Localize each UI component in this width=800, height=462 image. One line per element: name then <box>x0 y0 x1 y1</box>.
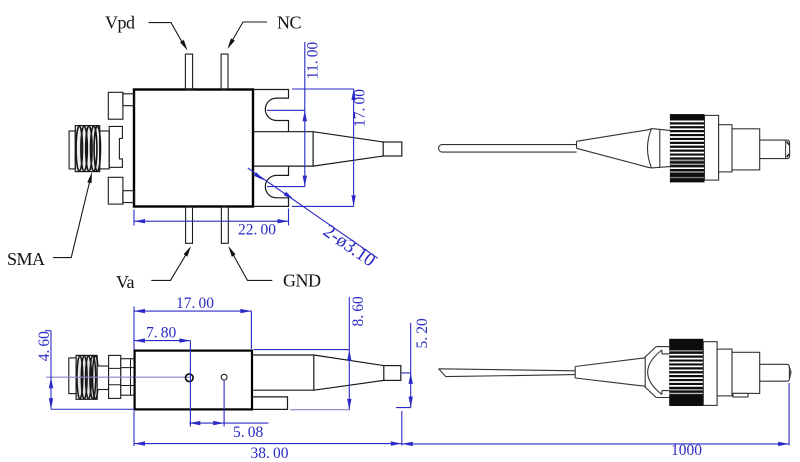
coupling ring (upper) <box>705 115 719 180</box>
boot collar steps (lower) <box>656 347 669 398</box>
dimension 7.80 extension through body <box>189 341 191 427</box>
svg-text:5. 20: 5. 20 <box>414 318 431 348</box>
SMA thread coils (side view) <box>77 356 83 399</box>
svg-text:GND: GND <box>283 271 321 291</box>
dimension 17.00 (side) extension lines <box>134 307 251 350</box>
dimension 4.60 line <box>45 331 51 410</box>
SMA flange bottom boss (top view) <box>123 191 135 203</box>
SMA end cap (side view) <box>69 358 76 394</box>
dimension 17.00 (top view) line <box>353 89 355 206</box>
pin NC top (top view) <box>221 54 228 89</box>
dimension 5.08 extension line <box>223 381 225 427</box>
collar (upper) <box>652 129 670 168</box>
svg-text:SMA: SMA <box>7 249 45 269</box>
GROUP: upper fiber pigtail with FC connector <box>439 114 790 182</box>
ferrule tip mark (lower) <box>789 367 791 379</box>
ferrule (upper) <box>760 140 790 159</box>
dimension 1000 line <box>402 443 789 445</box>
dimension 11.00 line <box>304 42 306 187</box>
svg-text:1000: 1000 <box>671 442 702 459</box>
pin Va bottom (top view) <box>186 207 193 244</box>
back ring (lower) <box>717 349 732 396</box>
dimension 17.00 (side) line <box>134 310 251 312</box>
SMA flange top boss (top view) <box>123 94 135 106</box>
svg-text:5. 08: 5. 08 <box>233 424 263 441</box>
svg-text:17. 00: 17. 00 <box>176 295 214 312</box>
knurled nut (lower) <box>669 339 703 406</box>
GROUP: top view of module <box>7 13 402 293</box>
leader for NC <box>231 22 267 43</box>
leader for GND <box>232 253 272 281</box>
pin hole small circle (side view) <box>221 374 227 380</box>
pin Vpd top (top view) <box>185 54 192 89</box>
SMA flange bottom tab (top view) <box>108 177 123 204</box>
SMA middle block with notch (top view) <box>109 126 122 167</box>
fiber cable (upper) <box>439 145 577 153</box>
knurled nut (upper) <box>670 114 705 182</box>
connector body (lower) <box>732 352 760 393</box>
boot cone (upper) <box>577 130 649 168</box>
snout cone (side view) <box>314 355 384 390</box>
dimension 17.00 (top view) reference lines <box>292 89 354 206</box>
module body (side view) <box>135 351 252 410</box>
dimension 8.60 line <box>348 297 350 410</box>
svg-text:2-ø3.10: 2-ø3.10 <box>319 221 379 272</box>
dimension 4.60 bottom reference <box>51 408 135 410</box>
boot collar flare (lower) <box>644 347 656 398</box>
svg-text:Vpd: Vpd <box>105 13 135 33</box>
svg-text:11. 00: 11. 00 <box>305 42 322 80</box>
pin GND bottom (top view) <box>221 207 228 244</box>
boot cone (lower) <box>575 358 644 386</box>
slot 1 centre line (blue) <box>267 109 305 111</box>
svg-text:Va: Va <box>116 272 135 292</box>
GROUP: side view of module <box>36 295 431 462</box>
SMA nut flat (top view) <box>100 131 110 169</box>
axis centre line (side view) <box>46 376 136 378</box>
dimension 8.60 reference lines <box>254 349 350 351</box>
coupling ring (lower) <box>703 342 717 406</box>
svg-text:NC: NC <box>277 13 301 33</box>
snout neck (top view) <box>253 132 313 166</box>
dimension 1000 extension line left <box>401 411 403 446</box>
SMA neck (side view) <box>97 366 108 390</box>
dimension 22.00 line <box>134 220 289 222</box>
connector body (upper) <box>732 129 760 170</box>
dimension 5.08 line <box>189 422 268 424</box>
dimension 1000 extension line right <box>788 383 790 446</box>
SMA threaded section (side view) <box>77 356 97 398</box>
snout tip (top view) <box>383 142 402 156</box>
leader for Vpd <box>149 23 185 46</box>
boot dome (lower) <box>648 350 662 395</box>
snout tip (side view) <box>384 366 401 381</box>
SMA threaded section (top view) <box>76 127 99 171</box>
dimension 38.00 extension line left <box>133 411 135 446</box>
module body (top view) <box>134 90 253 207</box>
slot 2 centre line (blue) <box>267 186 305 188</box>
snout cone (top view) <box>313 132 383 166</box>
flange plate lower outline with slot (top view) <box>253 166 288 206</box>
GROUP: lower fiber pigtail with FC connector <box>402 339 791 459</box>
ferrule tip line (upper) <box>785 141 787 159</box>
pin hole circle with cross (side view) <box>186 374 194 382</box>
snout neck (side view) <box>252 355 314 390</box>
leader for Va <box>151 254 186 281</box>
dimension 38.00 line <box>134 443 402 445</box>
svg-text:8. 60: 8. 60 <box>350 296 367 326</box>
svg-text:4. 60: 4. 60 <box>36 331 53 361</box>
svg-text:38. 00: 38. 00 <box>251 445 289 462</box>
svg-text:7. 80: 7. 80 <box>146 325 176 342</box>
boot end cap (upper) <box>648 129 652 168</box>
leader line 2-diam3.10 <box>248 168 378 258</box>
ferrule (lower) <box>760 364 790 381</box>
leader for SMA <box>53 181 90 258</box>
SMA end cap (top view) <box>69 131 75 169</box>
SMA hex nut (side view) <box>109 355 121 398</box>
svg-text:17. 00: 17. 00 <box>352 89 369 127</box>
dimension 7.80 line <box>134 340 190 342</box>
SMA flange top tab (top view) <box>108 92 123 119</box>
key tab (lower) <box>733 393 748 397</box>
dimension 5.20 line <box>396 323 411 408</box>
back ring (upper) <box>719 125 732 172</box>
svg-text:22. 00: 22. 00 <box>238 222 276 239</box>
axis centre line inside body (side view) <box>135 376 191 378</box>
SMA thread coils (top view) <box>76 126 82 171</box>
dimension 22.00 extension lines <box>134 209 289 226</box>
flange plate upper outline with slot (top view) <box>253 90 288 132</box>
SMA washer (side view) <box>121 359 135 396</box>
fiber cable wedge (lower) <box>439 369 576 377</box>
bottom tab (side view) <box>252 397 288 410</box>
